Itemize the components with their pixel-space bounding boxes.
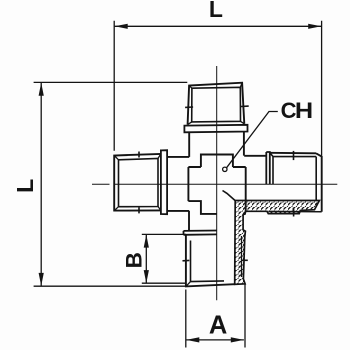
top neck [189, 132, 244, 157]
extension line A left [185, 290, 187, 348]
right port section thread root [267, 210, 300, 213]
dimension B line [145, 235, 147, 284]
dimension L top line [115, 25, 322, 27]
extension line top-right [321, 21, 323, 156]
dimension L top arrows [115, 24, 322, 29]
dimension L left line [40, 83, 42, 286]
bottom neck [188, 211, 190, 231]
CH leader line [227, 112, 278, 168]
svg-text:A: A [209, 311, 227, 339]
bottom port inner face [191, 241, 225, 282]
left port shoulder plate [161, 150, 167, 214]
extension line top-left [113, 21, 115, 151]
section hatched wall [235, 201, 320, 285]
bottom port outer [186, 235, 235, 287]
top port inner face [192, 87, 241, 122]
left port chamfers [114, 154, 161, 211]
svg-text:B: B [122, 252, 147, 268]
extension line left-top [34, 81, 188, 83]
right port shoulder plate [266, 152, 270, 184]
bottom port shoulder plate [184, 231, 217, 235]
svg-text:L: L [209, 0, 223, 22]
left arm edges [167, 157, 189, 211]
node center axis vertical [216, 66, 218, 300]
dimension A line [186, 339, 244, 341]
top port outer [188, 83, 245, 125]
top port shoulder plate [184, 125, 247, 133]
bottom port section thread root [241, 236, 243, 277]
extension line A right [244, 284, 246, 348]
extension line B bottom [142, 282, 187, 284]
left port thread ticks [138, 152, 140, 214]
node center axis horizontal [92, 183, 110, 185]
right port thread tick top [293, 151, 295, 160]
right port section bottom silhouette [269, 210, 322, 212]
left port outer [114, 154, 161, 211]
dimension B arrows [144, 235, 149, 284]
svg-text:L: L [12, 179, 38, 193]
right port inner top line [270, 153, 316, 201]
dimension L left arrows [39, 83, 44, 286]
right arm top edge [244, 155, 266, 157]
top port chamfers [188, 83, 245, 125]
left port inner face [119, 158, 159, 206]
bottom port thread tick [183, 259, 190, 261]
right port outer top [270, 153, 322, 212]
section break line [223, 191, 236, 201]
dimension A arrows [186, 337, 244, 342]
bottom port chamfer [186, 282, 191, 287]
right port bottom tick [293, 208, 295, 217]
svg-text:H: H [295, 99, 313, 123]
top port thread ticks [185, 106, 249, 107]
hex boss staircase [188, 154, 245, 214]
extension line B top [142, 233, 186, 235]
bottom port section tick [241, 259, 248, 261]
CH leader dot [223, 167, 227, 171]
extension line left-bottom [34, 285, 187, 287]
